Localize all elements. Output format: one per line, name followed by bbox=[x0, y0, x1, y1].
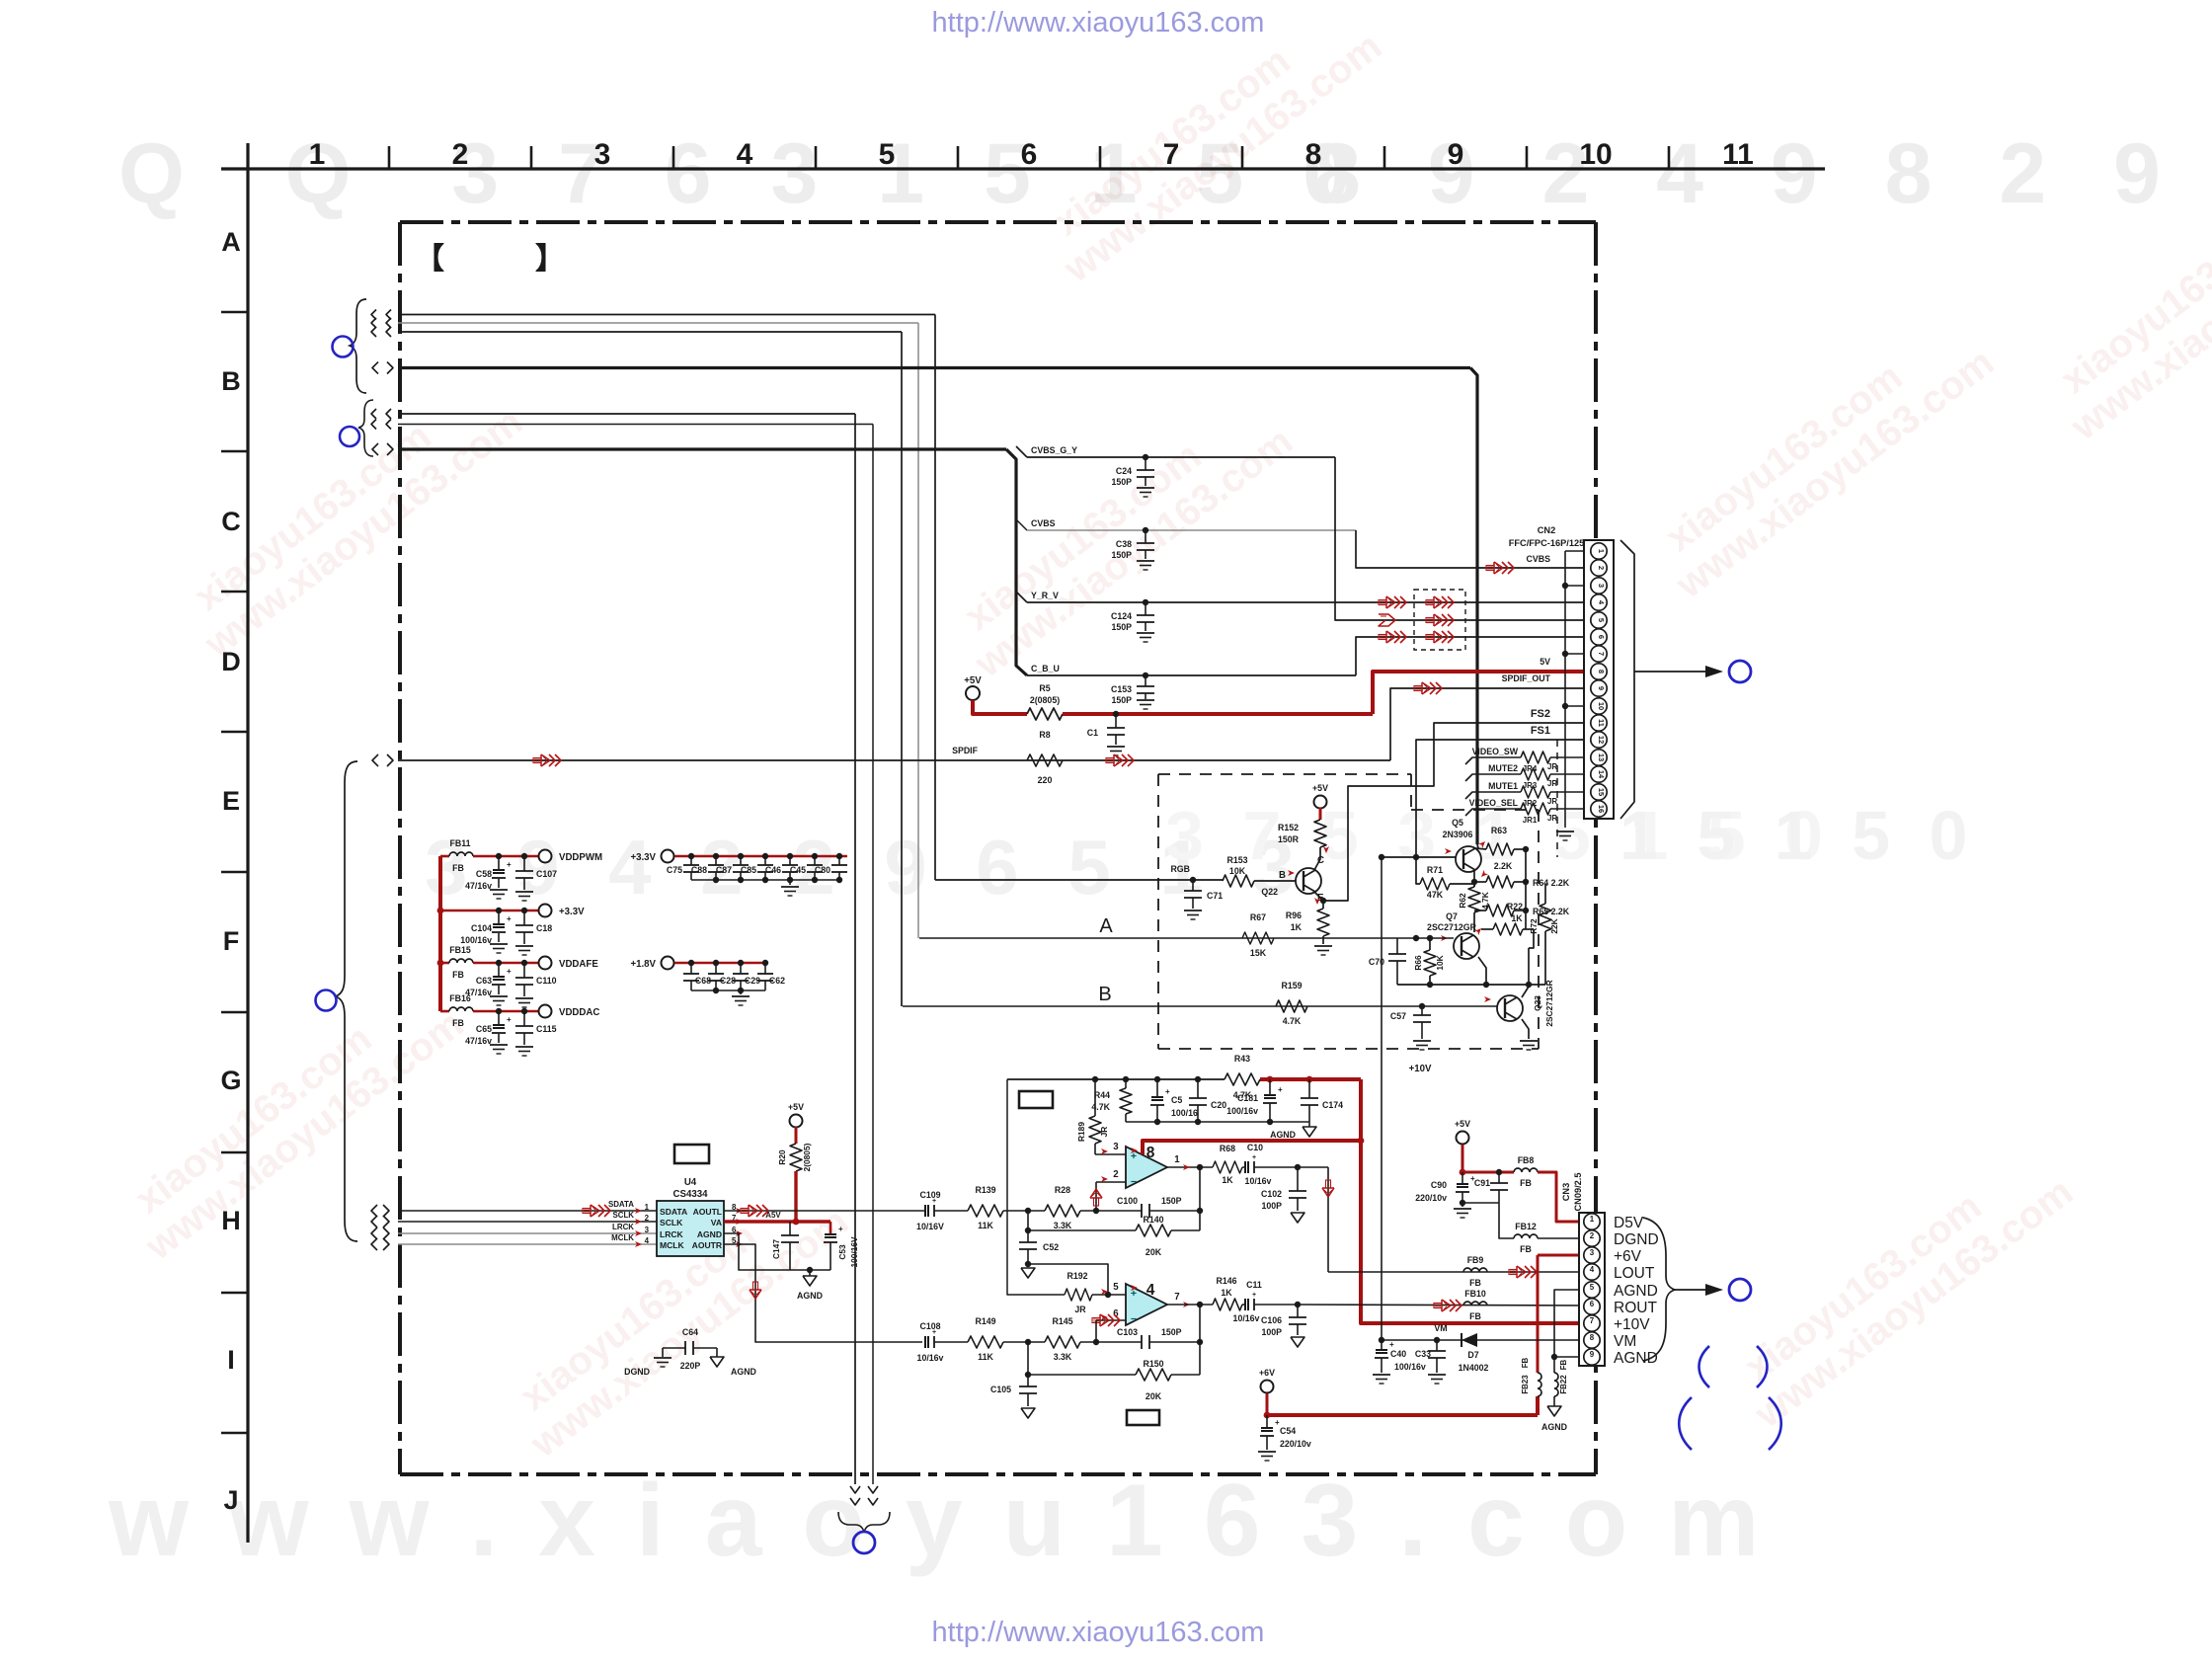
svg-text:Q22: Q22 bbox=[1261, 887, 1278, 897]
capacitor C153 bbox=[1143, 673, 1148, 678]
wire C_B_U bbox=[1027, 674, 1356, 676]
svg-text:MUTE2: MUTE2 bbox=[1488, 763, 1518, 773]
wire CN2 gnd bus bbox=[1564, 551, 1566, 828]
svg-text:VM: VM bbox=[1434, 1323, 1447, 1333]
svg-text:FS1: FS1 bbox=[1531, 725, 1550, 737]
pin 8 CN3 VM bbox=[1584, 1332, 1600, 1348]
svg-text:8: 8 bbox=[1597, 670, 1606, 673]
svg-text:8: 8 bbox=[1305, 138, 1322, 171]
inductor FB15 bbox=[440, 962, 449, 965]
svg-text:C174: C174 bbox=[1322, 1100, 1343, 1110]
svg-text:14: 14 bbox=[1597, 770, 1606, 779]
capacitor C5 bbox=[1156, 1079, 1158, 1096]
svg-text:【: 【 bbox=[415, 243, 444, 276]
capacitor C80 bbox=[836, 853, 842, 859]
svg-text:RGB: RGB bbox=[1170, 864, 1190, 874]
svg-text:5: 5 bbox=[1590, 1283, 1595, 1292]
capacitor C87 bbox=[738, 853, 744, 859]
resistor R44 bbox=[1120, 1088, 1132, 1114]
capacitor C11 bbox=[1244, 1299, 1249, 1310]
svg-text:11K: 11K bbox=[978, 1352, 993, 1362]
resistor R145 bbox=[1045, 1336, 1080, 1348]
svg-text:SCLK: SCLK bbox=[612, 1211, 634, 1220]
svg-text:+: + bbox=[1165, 1087, 1170, 1096]
capacitor C33 bbox=[1436, 1340, 1438, 1351]
svg-text:2.2K: 2.2K bbox=[1494, 861, 1513, 871]
svg-text:+: + bbox=[838, 1225, 843, 1233]
svg-text:100/16v: 100/16v bbox=[1226, 1106, 1258, 1116]
svg-text:R64 2.2K: R64 2.2K bbox=[1533, 878, 1570, 888]
resistor JR2 net MUTE1 bbox=[1465, 792, 1521, 799]
op-amp IC6A bbox=[1126, 1147, 1167, 1188]
svg-text:15K: 15K bbox=[1250, 948, 1267, 958]
capacitor C88 bbox=[713, 853, 719, 859]
svg-text:7: 7 bbox=[1163, 138, 1180, 171]
arrow column Y_R_V bbox=[1379, 600, 1386, 605]
svg-text:C87: C87 bbox=[716, 865, 732, 875]
svg-text:CVBS: CVBS bbox=[1527, 554, 1551, 564]
svg-text:J: J bbox=[223, 1485, 238, 1515]
wire op2 pin6 bbox=[1096, 1319, 1126, 1321]
svg-text:C33: C33 bbox=[1415, 1349, 1431, 1359]
svg-text:10/16v: 10/16v bbox=[1245, 1176, 1272, 1186]
svg-text:C64: C64 bbox=[682, 1327, 698, 1337]
svg-text:100/16v: 100/16v bbox=[460, 935, 492, 945]
svg-text:VA: VA bbox=[711, 1218, 722, 1227]
pin 3 CN3 +6V bbox=[1584, 1247, 1600, 1263]
svg-text:4.7K: 4.7K bbox=[1480, 892, 1490, 910]
svg-text:F: F bbox=[223, 926, 240, 956]
svg-text:C88: C88 bbox=[691, 865, 707, 875]
svg-text:+: + bbox=[1252, 1154, 1256, 1161]
svg-text:15: 15 bbox=[1597, 788, 1606, 796]
svg-text:10: 10 bbox=[1597, 702, 1606, 710]
svg-text:C103: C103 bbox=[1117, 1327, 1138, 1337]
svg-text:2: 2 bbox=[645, 1214, 650, 1223]
svg-text:+: + bbox=[1278, 1085, 1283, 1094]
svg-text:MCLK: MCLK bbox=[611, 1233, 634, 1242]
wire video bus thick bbox=[372, 443, 378, 455]
svg-text:150P: 150P bbox=[1161, 1196, 1182, 1206]
svg-text:11: 11 bbox=[1722, 138, 1754, 171]
capacitor C110 bbox=[521, 960, 527, 966]
node bottom circle bbox=[853, 1532, 875, 1553]
svg-text:FB16: FB16 bbox=[449, 993, 471, 1003]
capacitor C38 bbox=[1143, 527, 1148, 533]
pin 14 CN2 bbox=[1591, 766, 1607, 782]
op-amp U4 CS4334 DAC bbox=[657, 1201, 724, 1256]
resistor R72 bbox=[1540, 904, 1551, 931]
svg-text:FB: FB bbox=[452, 863, 464, 873]
wire FS2 bbox=[1348, 723, 1591, 899]
svg-text:13: 13 bbox=[1597, 753, 1606, 761]
pin 9 CN2 bbox=[1591, 680, 1607, 696]
pin 5 CN2 bbox=[1591, 612, 1607, 628]
svg-text:H: H bbox=[221, 1206, 241, 1235]
svg-text:C1: C1 bbox=[1087, 728, 1098, 738]
svg-text:w w w . x i a o y u 1 6 3 . c: w w w . x i a o y u 1 6 3 . c o m bbox=[108, 1464, 1766, 1578]
wire FB12 to pin2 bbox=[1499, 1203, 1514, 1238]
wire red R152 bbox=[1319, 808, 1322, 820]
svg-text:AGND: AGND bbox=[1270, 1130, 1296, 1140]
svg-text:R43: R43 bbox=[1234, 1054, 1250, 1064]
arrow SPDIF bbox=[1106, 758, 1114, 763]
svg-text:SPDIF_OUT: SPDIF_OUT bbox=[1502, 673, 1551, 683]
svg-text:VDDDAC: VDDDAC bbox=[559, 1007, 599, 1018]
arrow column C_B_U bbox=[1379, 635, 1386, 640]
svg-text:+: + bbox=[507, 967, 512, 976]
svg-text:C24: C24 bbox=[1116, 466, 1132, 476]
svg-text:6: 6 bbox=[1590, 1300, 1595, 1308]
capacitor C107 bbox=[521, 853, 527, 859]
wire +10V rail black part bbox=[1007, 1078, 1224, 1080]
wire G2 L2 bbox=[371, 420, 376, 430]
svg-text:Q5: Q5 bbox=[1452, 818, 1463, 828]
power +5V port CN3 bbox=[1457, 1132, 1469, 1145]
inductor FB11 bbox=[440, 855, 449, 858]
svg-text:1: 1 bbox=[1590, 1215, 1595, 1224]
pin 10 CN2 bbox=[1591, 698, 1607, 714]
resistor R62 bbox=[1468, 887, 1480, 912]
svg-text:11: 11 bbox=[1597, 719, 1606, 727]
svg-text:CN09/2.5: CN09/2.5 bbox=[1573, 1172, 1583, 1211]
wire +10V to CN3 pin7 bbox=[1361, 1079, 1591, 1323]
svg-text:12: 12 bbox=[1597, 736, 1606, 744]
wire bottom exit arrows bbox=[850, 1486, 860, 1493]
resistor R150 bbox=[1027, 1342, 1029, 1375]
wire C_B_U to pin6 bbox=[1356, 637, 1591, 675]
pin 4 CN3 LOUT bbox=[1584, 1264, 1600, 1280]
wire CVBS_G_Y bbox=[1016, 446, 1027, 457]
svg-text:R67: R67 bbox=[1250, 912, 1266, 922]
wire SCLK bbox=[371, 1216, 377, 1227]
capacitor C57 bbox=[1419, 1003, 1425, 1009]
svg-text:C54: C54 bbox=[1280, 1426, 1296, 1436]
svg-text:D5V: D5V bbox=[1614, 1215, 1644, 1231]
svg-text:47/16v: 47/16v bbox=[465, 881, 492, 891]
svg-text:R68: R68 bbox=[1220, 1144, 1235, 1153]
svg-text:3: 3 bbox=[645, 1226, 650, 1234]
power port VDDAFE bbox=[539, 957, 552, 970]
svg-text:FB12: FB12 bbox=[1515, 1222, 1537, 1231]
wire CVBS_G_Y to pin5 bbox=[1335, 457, 1591, 620]
svg-text:C11: C11 bbox=[1246, 1280, 1262, 1290]
svg-text:−: − bbox=[1131, 1176, 1137, 1188]
svg-text:9: 9 bbox=[1448, 138, 1464, 171]
svg-text:R8: R8 bbox=[1039, 730, 1050, 740]
wire AOUTL chain bbox=[724, 1210, 924, 1212]
svg-text:10: 10 bbox=[1579, 138, 1612, 171]
svg-text:D7: D7 bbox=[1467, 1350, 1478, 1360]
svg-text:AOUTL: AOUTL bbox=[693, 1207, 722, 1217]
svg-text:150R: 150R bbox=[1278, 834, 1300, 844]
op-amp IC6B bbox=[1126, 1284, 1167, 1325]
svg-text:VIDEO_SEL: VIDEO_SEL bbox=[1469, 798, 1519, 808]
svg-text:3: 3 bbox=[1590, 1248, 1595, 1257]
svg-text:AGND: AGND bbox=[697, 1229, 722, 1239]
svg-text:C107: C107 bbox=[536, 869, 557, 879]
svg-text:MUTE1: MUTE1 bbox=[1488, 781, 1518, 791]
svg-text:FB: FB bbox=[1469, 1311, 1481, 1321]
pin 2 CN3 DGND bbox=[1584, 1230, 1600, 1246]
brace bottom bbox=[838, 1512, 890, 1533]
svg-text:FB15: FB15 bbox=[449, 945, 471, 955]
capacitor C58 bbox=[496, 853, 502, 859]
svg-text:3: 3 bbox=[594, 138, 611, 171]
svg-text:SDATA: SDATA bbox=[660, 1207, 687, 1217]
svg-text:+: + bbox=[507, 1015, 512, 1024]
capacitor C181 bbox=[1267, 1076, 1274, 1083]
dashed box video switch bbox=[1158, 773, 1411, 775]
svg-text:1K: 1K bbox=[1511, 913, 1523, 923]
svg-text:10/16V: 10/16V bbox=[916, 1222, 944, 1231]
resistor R152 bbox=[1314, 820, 1326, 847]
resistor R146 bbox=[1213, 1299, 1242, 1310]
pin 6 CN3 ROUT bbox=[1584, 1299, 1600, 1314]
capacitor C108 bbox=[924, 1336, 929, 1348]
svg-text:FB: FB bbox=[1559, 1359, 1568, 1370]
svg-text:C104: C104 bbox=[471, 923, 492, 933]
svg-text:150P: 150P bbox=[1111, 550, 1132, 560]
svg-text:2(0805): 2(0805) bbox=[1030, 695, 1060, 705]
wire U4 AGND stub bbox=[724, 1233, 790, 1270]
svg-text:VM: VM bbox=[1614, 1333, 1636, 1350]
svg-text:2(0805): 2(0805) bbox=[802, 1143, 812, 1171]
svg-text:220: 220 bbox=[1038, 775, 1053, 785]
capacitor C105 bbox=[1027, 1375, 1029, 1386]
svg-text:C90: C90 bbox=[1431, 1180, 1447, 1190]
svg-text:5: 5 bbox=[1597, 618, 1606, 622]
svg-text:FB10: FB10 bbox=[1464, 1289, 1486, 1299]
capacitor C109 bbox=[924, 1205, 929, 1217]
schematic border bbox=[400, 220, 1596, 224]
transistor Q22 bbox=[1314, 855, 1320, 870]
resistor R149 bbox=[968, 1336, 1003, 1348]
capacitor C65 bbox=[496, 1008, 502, 1014]
wire Y_R_V bbox=[1016, 592, 1027, 602]
capacitor C100 bbox=[1141, 1204, 1143, 1218]
resistor R65 bbox=[1486, 905, 1514, 916]
pin 2 CN2 bbox=[1591, 560, 1607, 576]
wire VM net bbox=[1382, 1339, 1591, 1341]
svg-text:7: 7 bbox=[1174, 1292, 1179, 1303]
wire L3 group1 bbox=[398, 331, 902, 333]
svg-text:R20: R20 bbox=[777, 1149, 787, 1165]
svg-text:+5V: +5V bbox=[964, 675, 982, 686]
svg-text:AGND: AGND bbox=[731, 1367, 756, 1377]
pin 8 CN2 bbox=[1591, 664, 1607, 679]
svg-text:C110: C110 bbox=[536, 976, 557, 986]
resistor R192 bbox=[1065, 1289, 1092, 1301]
svg-text:16: 16 bbox=[1597, 805, 1606, 813]
wire SPDIF_OUT bbox=[1390, 688, 1591, 760]
wire CVBS to pin2 bbox=[1356, 530, 1591, 568]
svg-text:R22: R22 bbox=[1507, 902, 1523, 911]
pin 1 CN2 bbox=[1591, 543, 1607, 559]
capacitor C70 bbox=[1396, 938, 1398, 954]
wire SDATA bbox=[371, 1205, 377, 1217]
arrow LOUT bbox=[1509, 1270, 1517, 1275]
inductor FB10 bbox=[1463, 1302, 1487, 1306]
svg-text:3.3K: 3.3K bbox=[1054, 1352, 1072, 1362]
rect placeholder above U4 bbox=[674, 1145, 709, 1163]
wire FB8 to pin1 bbox=[1538, 1172, 1591, 1222]
svg-text:C45: C45 bbox=[790, 865, 806, 875]
svg-text:Y_R_V: Y_R_V bbox=[1031, 591, 1059, 600]
wire +1.8V gnd bus bbox=[691, 990, 765, 991]
wire SPDIF bbox=[372, 754, 378, 766]
pin 16 CN2 bbox=[1591, 801, 1607, 817]
svg-text:C75: C75 bbox=[667, 865, 682, 875]
svg-text:FB: FB bbox=[452, 1018, 464, 1028]
svg-text:FB22: FB22 bbox=[1559, 1375, 1568, 1394]
wire op2 out bbox=[1167, 1304, 1213, 1306]
capacitor C68 bbox=[688, 960, 694, 966]
svg-text:C18: C18 bbox=[536, 923, 552, 933]
svg-text:10/16v: 10/16v bbox=[917, 1353, 944, 1363]
svg-text:100/16V: 100/16V bbox=[849, 1236, 859, 1268]
capacitor C85 bbox=[762, 853, 768, 859]
node circle rows E-H bbox=[316, 990, 337, 1011]
wire R6x bus bbox=[1525, 849, 1527, 929]
svg-text:+: + bbox=[507, 914, 512, 923]
wire 5V red to CN2 pin8 bbox=[1063, 712, 1373, 716]
svg-text:150P: 150P bbox=[1111, 695, 1132, 705]
svg-text:2SC2712GR: 2SC2712GR bbox=[1544, 980, 1554, 1026]
pin 13 CN2 bbox=[1591, 750, 1607, 765]
svg-text:CVBS_G_Y: CVBS_G_Y bbox=[1031, 445, 1077, 455]
pin 7 CN2 bbox=[1591, 646, 1607, 662]
svg-text:AGND: AGND bbox=[1614, 1283, 1658, 1300]
svg-text:R62: R62 bbox=[1458, 893, 1467, 909]
wire A5V red bbox=[794, 1171, 797, 1222]
svg-text:C20: C20 bbox=[1211, 1100, 1226, 1110]
wire MCLK bbox=[371, 1238, 377, 1250]
resistor R68 bbox=[1213, 1161, 1242, 1173]
svg-text:C63: C63 bbox=[476, 976, 492, 986]
arrow CVBS bbox=[1486, 566, 1494, 571]
svg-text:FB: FB bbox=[1469, 1278, 1481, 1288]
svg-text:C58: C58 bbox=[476, 869, 492, 879]
wire +6V net bbox=[1261, 1381, 1274, 1393]
wire Q5 base to VM bbox=[1381, 857, 1382, 1141]
svg-text:100/16: 100/16 bbox=[1171, 1108, 1198, 1118]
wire Q7 emitter bottom bbox=[1397, 984, 1545, 986]
svg-text:150P: 150P bbox=[1111, 477, 1132, 487]
capacitor C53 bbox=[829, 1222, 832, 1233]
wire +3.3V row bbox=[440, 910, 538, 912]
svg-text:C109: C109 bbox=[919, 1190, 940, 1200]
svg-text:R146: R146 bbox=[1216, 1276, 1236, 1286]
svg-text:+5V: +5V bbox=[1455, 1119, 1470, 1129]
svg-text:E: E bbox=[222, 786, 240, 816]
svg-text:FB11: FB11 bbox=[449, 838, 470, 848]
svg-text:VIDEO_SW: VIDEO_SW bbox=[1472, 747, 1519, 756]
jumper dashed box bbox=[1414, 590, 1465, 650]
svg-text:JR: JR bbox=[1547, 797, 1557, 806]
svg-text:R96: R96 bbox=[1286, 911, 1302, 920]
svg-text:8: 8 bbox=[1146, 1145, 1155, 1161]
svg-text:R149: R149 bbox=[975, 1316, 995, 1326]
capacitor C106 bbox=[1297, 1305, 1299, 1317]
svg-text:R192: R192 bbox=[1066, 1271, 1087, 1281]
svg-text:R153: R153 bbox=[1226, 855, 1247, 865]
svg-text:R28: R28 bbox=[1055, 1185, 1070, 1195]
wire LOUT to CN3 bbox=[1328, 1271, 1591, 1273]
svg-text:R140: R140 bbox=[1143, 1215, 1163, 1225]
svg-text:C102: C102 bbox=[1261, 1189, 1282, 1199]
svg-text:C53: C53 bbox=[837, 1244, 847, 1260]
pin 9 CN3 AGND bbox=[1584, 1349, 1600, 1365]
svg-text:10K: 10K bbox=[1229, 866, 1246, 876]
svg-text:LRCK: LRCK bbox=[660, 1229, 684, 1239]
svg-text:C62: C62 bbox=[769, 976, 785, 986]
svg-text:2SC2712GR: 2SC2712GR bbox=[1427, 922, 1477, 932]
svg-text:JR1: JR1 bbox=[1523, 816, 1538, 825]
capacitor C75 bbox=[688, 853, 694, 859]
arrow ROUT bbox=[1434, 1304, 1442, 1308]
wire +10V red bbox=[1260, 1077, 1361, 1081]
svg-text:C52: C52 bbox=[1043, 1242, 1059, 1252]
rect placeholder G bbox=[1019, 1091, 1053, 1108]
wire CN3 out arrow bbox=[1675, 1289, 1705, 1291]
wire AOUTR drop bbox=[724, 1244, 922, 1342]
capacitor C10 bbox=[1244, 1161, 1249, 1173]
svg-text:+6V: +6V bbox=[1614, 1248, 1642, 1265]
svg-text:FS2: FS2 bbox=[1531, 708, 1550, 720]
capacitor C124 bbox=[1143, 599, 1148, 605]
svg-text:B: B bbox=[1098, 984, 1111, 1005]
resistor R20 bbox=[795, 1127, 798, 1144]
svg-text:JR: JR bbox=[1547, 779, 1557, 788]
svg-text:1: 1 bbox=[1597, 549, 1606, 553]
wire L1 group1 bbox=[371, 310, 376, 320]
svg-text:R145: R145 bbox=[1052, 1316, 1072, 1326]
capacitor C64 DGND AGND bbox=[663, 1347, 685, 1349]
svg-text:9: 9 bbox=[1597, 686, 1606, 690]
svg-text:1: 1 bbox=[309, 138, 326, 171]
wire FS1 bbox=[1416, 740, 1591, 857]
svg-text:SPDIF: SPDIF bbox=[952, 746, 979, 755]
svg-text:JR: JR bbox=[1547, 762, 1557, 771]
capacitor C20 bbox=[1197, 1079, 1199, 1098]
resistor R159 bbox=[1276, 1000, 1307, 1012]
node input circle 2 bbox=[340, 427, 359, 446]
connector brace group1 bbox=[350, 299, 366, 393]
capacitor C104 bbox=[496, 908, 502, 913]
capacitor C71 bbox=[1190, 877, 1196, 883]
wire LOUT vertical bbox=[1327, 1167, 1329, 1272]
svg-text:−: − bbox=[1131, 1313, 1137, 1325]
svg-text:VDDAFE: VDDAFE bbox=[559, 959, 598, 970]
svg-text:22K: 22K bbox=[1549, 918, 1559, 933]
resistor JR1 net VIDEO_SEL bbox=[1465, 809, 1521, 816]
svg-text:C38: C38 bbox=[1116, 539, 1132, 549]
svg-text:http://www.xiaoyu163.com: http://www.xiaoyu163.com bbox=[932, 7, 1265, 39]
pin 12 CN2 bbox=[1591, 732, 1607, 748]
svg-text:FFC/FPC-16P/125: FFC/FPC-16P/125 bbox=[1509, 538, 1584, 548]
svg-text:4.7K: 4.7K bbox=[1283, 1016, 1302, 1026]
svg-text:4: 4 bbox=[737, 138, 753, 171]
svg-text:100P: 100P bbox=[1261, 1201, 1282, 1211]
capacitor C102 bbox=[1297, 1167, 1299, 1191]
resistor R22 bbox=[1481, 928, 1493, 930]
wire op2 plus net bbox=[1007, 1079, 1065, 1295]
svg-text:R71: R71 bbox=[1427, 865, 1443, 875]
bracket CN2 right bbox=[1620, 540, 1634, 819]
wire +3.3V gnd bus bbox=[691, 879, 839, 881]
capacitor C28 bbox=[713, 960, 719, 966]
